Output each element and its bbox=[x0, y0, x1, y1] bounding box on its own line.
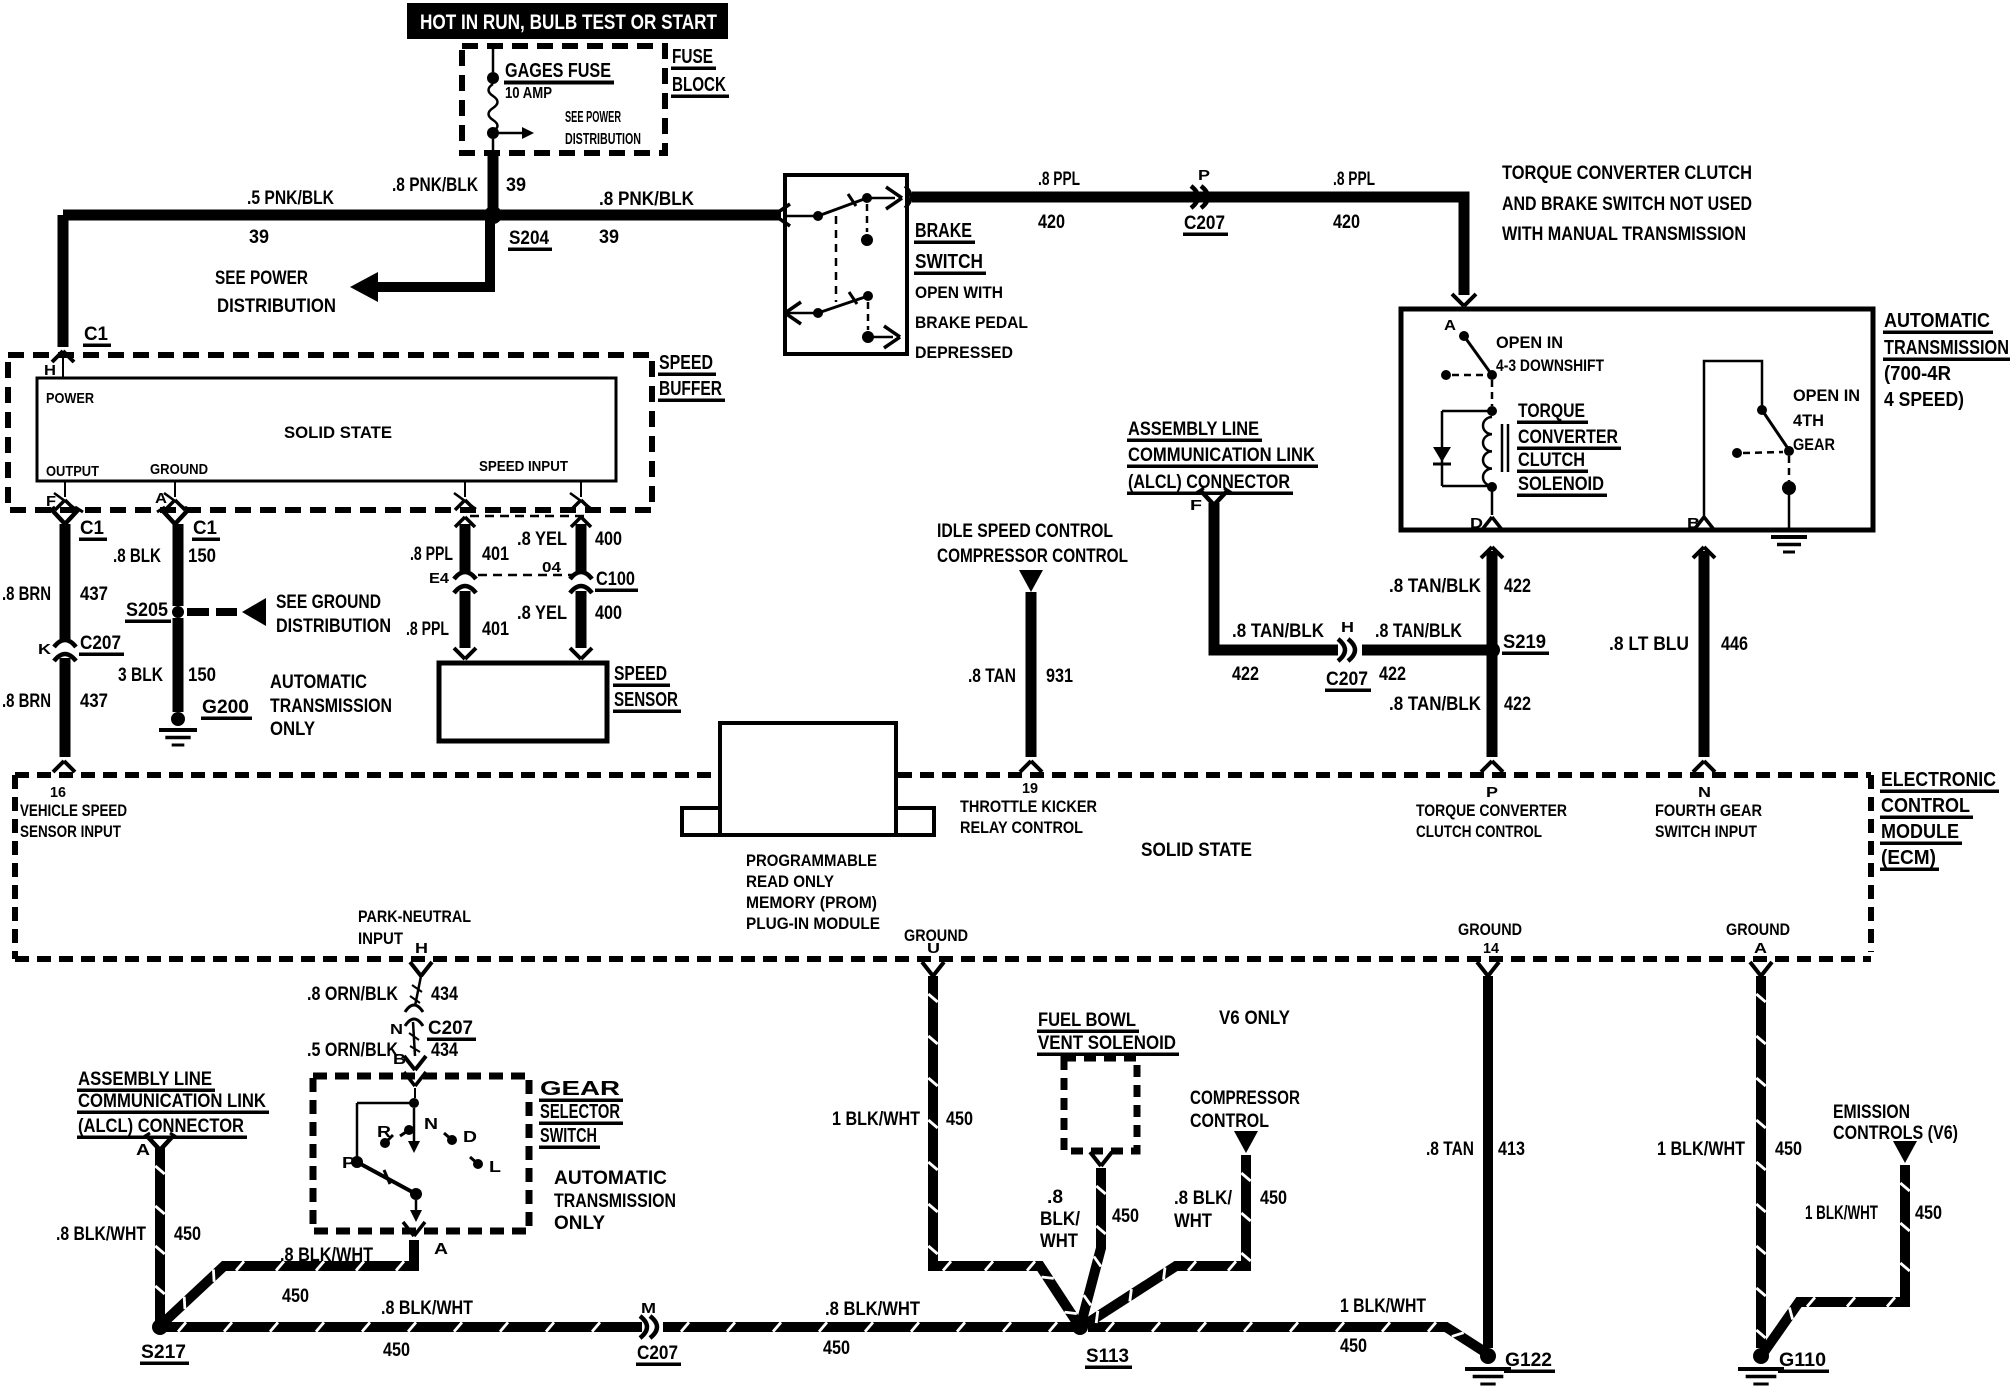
svg-text:.8 BLK/WHT: .8 BLK/WHT bbox=[825, 1299, 920, 1320]
svg-text:D: D bbox=[463, 1129, 477, 1146]
svg-text:OPEN IN: OPEN IN bbox=[1793, 386, 1860, 405]
svg-text:S204: S204 bbox=[509, 228, 549, 249]
svg-text:.8 PPL: .8 PPL bbox=[410, 544, 453, 565]
svg-text:3 BLK: 3 BLK bbox=[118, 665, 163, 686]
svg-text:450: 450 bbox=[383, 1340, 410, 1361]
svg-text:COMMUNICATION LINK: COMMUNICATION LINK bbox=[1128, 445, 1315, 466]
wire .8 TAN/BLK 422 from pin D bbox=[1481, 547, 1492, 558]
svg-text:G122: G122 bbox=[1505, 1350, 1552, 1371]
speed buffer solid state box bbox=[37, 378, 616, 481]
svg-text:SPEED: SPEED bbox=[659, 352, 713, 374]
svg-text:SEE GROUND: SEE GROUND bbox=[276, 592, 381, 613]
svg-text:C1: C1 bbox=[193, 518, 217, 539]
ground G200 bbox=[171, 712, 185, 726]
svg-text:EMISSION: EMISSION bbox=[1833, 1102, 1910, 1123]
fuel bowl vent solenoid box bbox=[1064, 1058, 1137, 1151]
svg-text:401: 401 bbox=[482, 619, 509, 640]
svg-text:.8 TAN/BLK: .8 TAN/BLK bbox=[1375, 621, 1462, 642]
svg-text:S113: S113 bbox=[1086, 1346, 1129, 1367]
svg-text:DISTRIBUTION: DISTRIBUTION bbox=[276, 616, 391, 637]
buffer pin speed input 1 bbox=[455, 500, 465, 510]
svg-text:C100: C100 bbox=[596, 569, 635, 590]
svg-text:.8 PNK/BLK: .8 PNK/BLK bbox=[599, 189, 694, 210]
svg-text:413: 413 bbox=[1498, 1139, 1525, 1160]
wire .8 BRN 437 lower bbox=[60, 658, 71, 757]
ECM box bbox=[15, 772, 718, 778]
svg-text:.8 TAN: .8 TAN bbox=[1426, 1139, 1474, 1160]
arrow see power distribution (S204) bbox=[372, 220, 490, 287]
svg-text:ONLY: ONLY bbox=[270, 719, 315, 740]
svg-text:400: 400 bbox=[595, 603, 622, 624]
svg-text:TORQUE CONVERTER CLUTCH: TORQUE CONVERTER CLUTCH bbox=[1502, 163, 1752, 184]
fuel bowl solenoid pin bbox=[1090, 1152, 1101, 1166]
brake switch mechanical link dashed bbox=[835, 216, 838, 302]
svg-text:422: 422 bbox=[1232, 664, 1259, 685]
svg-text:N: N bbox=[424, 1116, 438, 1133]
connector C207 pin K bbox=[54, 640, 76, 647]
svg-text:C207: C207 bbox=[637, 1343, 678, 1364]
svg-text:S217: S217 bbox=[141, 1342, 186, 1363]
wire .8 PPL 420 brake to C207 bbox=[905, 186, 911, 208]
svg-text:M: M bbox=[641, 1300, 656, 1317]
brake switch plunger dashed bbox=[866, 204, 869, 232]
svg-text:450: 450 bbox=[174, 1224, 201, 1245]
svg-text:450: 450 bbox=[823, 1338, 850, 1359]
svg-text:4 SPEED): 4 SPEED) bbox=[1884, 389, 1964, 411]
svg-text:19: 19 bbox=[1022, 780, 1038, 797]
svg-text:BRAKE PEDAL: BRAKE PEDAL bbox=[915, 313, 1028, 332]
wire 1 BLK/WHT 450 ground A bbox=[1756, 976, 1766, 1348]
buffer pin F bbox=[55, 500, 65, 510]
svg-text:AUTOMATIC: AUTOMATIC bbox=[270, 672, 367, 693]
svg-text:434: 434 bbox=[431, 1040, 458, 1061]
wire 1 BLK/WHT 450 S113 to G122 bbox=[1088, 1327, 1488, 1354]
svg-text:(700-4R: (700-4R bbox=[1884, 363, 1952, 385]
connector C207 pin P bbox=[1201, 186, 1208, 208]
svg-text:SOLID STATE: SOLID STATE bbox=[1141, 840, 1252, 861]
ECM pin U chevron bbox=[922, 962, 933, 976]
svg-text:DISTRIBUTION: DISTRIBUTION bbox=[217, 296, 336, 317]
svg-text:SENSOR: SENSOR bbox=[614, 689, 678, 711]
svg-text:C207: C207 bbox=[1184, 213, 1225, 234]
fuse F gages 10A bbox=[492, 46, 495, 72]
svg-text:450: 450 bbox=[1340, 1336, 1367, 1357]
svg-text:VEHICLE SPEED: VEHICLE SPEED bbox=[20, 801, 127, 820]
svg-text:OPEN IN: OPEN IN bbox=[1496, 333, 1563, 352]
gear selector contacts bbox=[380, 1138, 390, 1148]
svg-text:(ALCL) CONNECTOR: (ALCL) CONNECTOR bbox=[78, 1116, 244, 1137]
svg-text:(ALCL) CONNECTOR: (ALCL) CONNECTOR bbox=[1128, 472, 1290, 493]
svg-text:401: 401 bbox=[482, 544, 509, 565]
svg-text:C207: C207 bbox=[80, 633, 121, 654]
transmission pin A bbox=[1452, 294, 1464, 306]
svg-text:.8 BLK/WHT: .8 BLK/WHT bbox=[280, 1245, 373, 1266]
splice S204 bbox=[484, 206, 502, 224]
svg-text:437: 437 bbox=[80, 584, 108, 605]
buffer pin stubs bbox=[64, 481, 66, 497]
ECM pin 16 chevron bbox=[53, 761, 64, 772]
ECM pin H chevron bbox=[410, 962, 421, 976]
svg-text:39: 39 bbox=[249, 227, 269, 248]
wire .8 BLK/WHT 450 C207 to S113 bbox=[663, 1322, 1074, 1332]
PROM module bbox=[682, 808, 720, 835]
svg-text:PROGRAMMABLE: PROGRAMMABLE bbox=[746, 851, 877, 870]
svg-text:CONTROL: CONTROL bbox=[1881, 795, 1970, 817]
TCC solenoid coil bbox=[1442, 410, 1492, 413]
svg-text:DEPRESSED: DEPRESSED bbox=[915, 343, 1013, 362]
svg-text:SELECTOR: SELECTOR bbox=[540, 1101, 620, 1123]
svg-text:ONLY: ONLY bbox=[554, 1213, 605, 1234]
arrow see ground distribution bbox=[187, 608, 209, 616]
wire .8 TAN/BLK 422 to S219 bbox=[1362, 645, 1488, 656]
svg-text:COMMUNICATION LINK: COMMUNICATION LINK bbox=[78, 1091, 266, 1112]
svg-text:C207: C207 bbox=[428, 1018, 473, 1039]
svg-text:WHT: WHT bbox=[1174, 1211, 1212, 1232]
svg-text:.8 PPL: .8 PPL bbox=[1038, 169, 1080, 190]
4th gear switch bbox=[1704, 361, 1762, 517]
wire .8 PPL 401 upper bbox=[455, 517, 465, 527]
wire .8 TAN/BLK 422 from ALCL bbox=[1214, 503, 1338, 650]
svg-text:F: F bbox=[1190, 497, 1202, 514]
svg-text:P: P bbox=[1198, 167, 1210, 184]
svg-text:READ ONLY: READ ONLY bbox=[746, 872, 835, 891]
svg-text:AUTOMATIC: AUTOMATIC bbox=[554, 1168, 667, 1189]
svg-text:.8 TAN: .8 TAN bbox=[968, 666, 1016, 687]
svg-text:S205: S205 bbox=[126, 600, 168, 621]
svg-text:SOLENOID: SOLENOID bbox=[1518, 474, 1604, 495]
svg-text:AND BRAKE SWITCH NOT USED: AND BRAKE SWITCH NOT USED bbox=[1502, 194, 1752, 215]
splice S217 bbox=[152, 1319, 168, 1335]
svg-text:A: A bbox=[155, 490, 167, 507]
ECM pin 14 chevron bbox=[1477, 962, 1488, 976]
svg-text:450: 450 bbox=[1915, 1203, 1942, 1224]
svg-text:IDLE SPEED CONTROL: IDLE SPEED CONTROL bbox=[937, 521, 1113, 542]
svg-text:400: 400 bbox=[595, 529, 622, 550]
svg-text:ASSEMBLY LINE: ASSEMBLY LINE bbox=[1128, 419, 1259, 440]
svg-text:420: 420 bbox=[1038, 212, 1065, 233]
svg-text:CONVERTER: CONVERTER bbox=[1518, 427, 1618, 448]
svg-text:GEAR: GEAR bbox=[1793, 435, 1835, 454]
svg-text:A: A bbox=[136, 1142, 151, 1159]
wire 1 BLK/WHT 450 ground U bbox=[933, 976, 1078, 1324]
connector C207 pin H bbox=[1348, 639, 1355, 661]
svg-text:ELECTRONIC: ELECTRONIC bbox=[1881, 769, 1996, 791]
svg-text:SEE POWER: SEE POWER bbox=[565, 109, 621, 126]
svg-text:P: P bbox=[1486, 784, 1498, 801]
svg-text:150: 150 bbox=[188, 665, 216, 686]
svg-text:N: N bbox=[1698, 784, 1711, 801]
svg-text:.8 YEL: .8 YEL bbox=[517, 529, 567, 550]
svg-text:GAGES FUSE: GAGES FUSE bbox=[505, 60, 611, 82]
power feed banner HOT IN RUN bbox=[407, 3, 728, 39]
wire .8 BLK/WHT 450 fuel bowl bbox=[1081, 1168, 1101, 1324]
svg-text:.8 BLK/: .8 BLK/ bbox=[1174, 1188, 1233, 1209]
svg-text:C1: C1 bbox=[84, 324, 108, 345]
svg-text:RELAY CONTROL: RELAY CONTROL bbox=[960, 818, 1083, 837]
svg-text:DISTRIBUTION: DISTRIBUTION bbox=[565, 131, 641, 148]
svg-text:CLUTCH: CLUTCH bbox=[1518, 450, 1585, 471]
arrow see power distribution (fuse block) bbox=[499, 132, 524, 135]
svg-text:CLUTCH CONTROL: CLUTCH CONTROL bbox=[1416, 822, 1542, 841]
svg-text:.5 ORN/BLK: .5 ORN/BLK bbox=[307, 1040, 398, 1061]
svg-text:SWITCH INPUT: SWITCH INPUT bbox=[1655, 822, 1758, 841]
wire PNK/BLK down to C1 bbox=[58, 215, 69, 347]
brake switch box bbox=[785, 175, 907, 354]
svg-text:HOT IN RUN, BULB TEST OR START: HOT IN RUN, BULB TEST OR START bbox=[420, 11, 717, 34]
wire .8 BLK/WHT 450 S217 to C207 bbox=[160, 1322, 642, 1332]
svg-text:SWITCH: SWITCH bbox=[540, 1125, 597, 1147]
svg-text:.8 BLK/WHT: .8 BLK/WHT bbox=[56, 1224, 146, 1245]
svg-text:.8 BRN: .8 BRN bbox=[2, 584, 51, 605]
svg-text:CONTROLS (V6): CONTROLS (V6) bbox=[1833, 1123, 1958, 1144]
svg-text:.8 YEL: .8 YEL bbox=[517, 603, 567, 624]
gear selector switch box bbox=[313, 1076, 529, 1231]
svg-text:.8 BRN: .8 BRN bbox=[2, 691, 51, 712]
svg-text:C207: C207 bbox=[1326, 669, 1368, 690]
wire .8 TAN 413 bbox=[1483, 976, 1493, 1348]
connector E4 bbox=[454, 572, 476, 579]
svg-text:C1: C1 bbox=[80, 518, 104, 539]
svg-text:.8: .8 bbox=[1047, 1187, 1063, 1208]
wire .8 PNK/BLK 39 from fuse bbox=[488, 154, 499, 209]
svg-text:450: 450 bbox=[946, 1109, 973, 1130]
svg-text:.8 PPL: .8 PPL bbox=[406, 619, 449, 640]
buffer pin speed input 2 bbox=[571, 500, 581, 510]
svg-text:4TH: 4TH bbox=[1793, 411, 1824, 430]
svg-text:450: 450 bbox=[1112, 1206, 1139, 1227]
svg-text:.8 BLK: .8 BLK bbox=[113, 546, 161, 567]
svg-text:BLK/: BLK/ bbox=[1040, 1209, 1081, 1230]
buffer pin A bbox=[165, 500, 175, 510]
brake switch lower contact bbox=[785, 302, 801, 313]
svg-text:V6 ONLY: V6 ONLY bbox=[1219, 1008, 1290, 1029]
connector C207 pin N bbox=[405, 1005, 423, 1012]
svg-text:422: 422 bbox=[1504, 576, 1531, 597]
svg-text:GEAR: GEAR bbox=[540, 1078, 621, 1100]
wire 3 BLK 150 bbox=[173, 618, 184, 712]
connector C207 pin M bbox=[650, 1316, 657, 1338]
svg-text:PARK-NEUTRAL: PARK-NEUTRAL bbox=[358, 907, 471, 926]
svg-text:422: 422 bbox=[1504, 694, 1531, 715]
automatic transmission box bbox=[1401, 309, 1873, 530]
wire 1 BLK/WHT 450 emission bbox=[1893, 1141, 1917, 1163]
svg-text:450: 450 bbox=[1775, 1139, 1802, 1160]
wire .8 TAN 931 bbox=[1019, 570, 1043, 592]
splice S113 bbox=[1072, 1319, 1088, 1335]
svg-text:OUTPUT: OUTPUT bbox=[46, 463, 99, 480]
svg-text:1 BLK/WHT: 1 BLK/WHT bbox=[832, 1109, 920, 1130]
wire .8 BLK/WHT 450 from ALCL bbox=[155, 1148, 165, 1322]
svg-text:AUTOMATIC: AUTOMATIC bbox=[1884, 310, 1990, 332]
svg-text:POWER: POWER bbox=[46, 390, 94, 407]
svg-text:446: 446 bbox=[1721, 634, 1748, 655]
svg-text:BLOCK: BLOCK bbox=[672, 74, 726, 96]
svg-text:COMPRESSOR CONTROL: COMPRESSOR CONTROL bbox=[937, 546, 1128, 567]
svg-text:INPUT: INPUT bbox=[358, 929, 404, 948]
svg-text:N: N bbox=[390, 1021, 403, 1038]
svg-text:.8 BLK/WHT: .8 BLK/WHT bbox=[381, 1298, 473, 1319]
svg-text:TRANSMISSION: TRANSMISSION bbox=[270, 696, 392, 717]
svg-text:G200: G200 bbox=[202, 697, 249, 718]
svg-text:SENSOR INPUT: SENSOR INPUT bbox=[20, 822, 121, 841]
connector C1 pin F bbox=[52, 510, 65, 524]
svg-text:SEE POWER: SEE POWER bbox=[215, 268, 308, 289]
svg-text:WHT: WHT bbox=[1040, 1231, 1078, 1252]
wire .8 YEL 400 lower bbox=[576, 591, 587, 648]
svg-text:GROUND: GROUND bbox=[150, 461, 208, 478]
fuse block box bbox=[462, 46, 665, 153]
speed buffer box bbox=[8, 355, 652, 510]
svg-text:BUFFER: BUFFER bbox=[659, 378, 722, 400]
svg-text:K: K bbox=[38, 641, 51, 658]
svg-text:39: 39 bbox=[506, 175, 526, 196]
gear selector wiper P bbox=[351, 1156, 363, 1168]
wire .8 BRN 437 upper bbox=[60, 524, 71, 641]
svg-text:450: 450 bbox=[1260, 1188, 1287, 1209]
svg-text:SPEED: SPEED bbox=[614, 663, 667, 685]
svg-text:H: H bbox=[44, 362, 56, 379]
svg-text:THROTTLE KICKER: THROTTLE KICKER bbox=[960, 797, 1097, 816]
svg-text:.8 ORN/BLK: .8 ORN/BLK bbox=[307, 984, 398, 1005]
svg-text:150: 150 bbox=[188, 546, 216, 567]
svg-text:CONTROL: CONTROL bbox=[1190, 1111, 1269, 1132]
wire .8 BLK 150 bbox=[173, 524, 184, 606]
svg-text:04: 04 bbox=[542, 559, 562, 576]
speed sensor pins bbox=[454, 648, 465, 659]
wire bus PNK/BLK horizontal bbox=[63, 210, 781, 221]
wire .8 BLK/WHT 450 from gear selector bbox=[162, 1240, 414, 1324]
svg-text:GROUND: GROUND bbox=[1726, 920, 1790, 939]
svg-text:VENT SOLENOID: VENT SOLENOID bbox=[1038, 1033, 1176, 1054]
svg-text:420: 420 bbox=[1333, 212, 1360, 233]
svg-text:.5 PNK/BLK: .5 PNK/BLK bbox=[247, 188, 334, 209]
svg-text:OPEN WITH: OPEN WITH bbox=[915, 283, 1003, 302]
svg-text:422: 422 bbox=[1379, 664, 1406, 685]
ground G122 bbox=[1480, 1348, 1496, 1364]
svg-text:A: A bbox=[1444, 317, 1456, 334]
svg-text:931: 931 bbox=[1046, 666, 1073, 687]
svg-text:A: A bbox=[434, 1241, 449, 1258]
connector C100 D4 bbox=[570, 572, 592, 579]
gear selector internals bbox=[414, 1088, 416, 1098]
svg-text:PLUG-IN MODULE: PLUG-IN MODULE bbox=[746, 914, 880, 933]
wire .5 ORN/BLK 434 bbox=[413, 1022, 415, 1056]
transmission internal ground bbox=[1771, 535, 1807, 539]
wire .8 ORN/BLK 434 bbox=[415, 976, 421, 1006]
svg-text:TRANSMISSION: TRANSMISSION bbox=[1884, 337, 2009, 359]
speed sensor box bbox=[439, 663, 607, 741]
wire .8 BLK/WHT 450 compressor bbox=[1234, 1131, 1258, 1153]
svg-text:14: 14 bbox=[1483, 940, 1500, 957]
svg-text:1 BLK/WHT: 1 BLK/WHT bbox=[1805, 1203, 1878, 1224]
svg-text:H: H bbox=[1341, 619, 1354, 636]
svg-text:SWITCH: SWITCH bbox=[915, 251, 983, 273]
ground G110 bbox=[1753, 1348, 1769, 1364]
svg-text:SOLID STATE: SOLID STATE bbox=[284, 423, 392, 442]
svg-text:10 AMP: 10 AMP bbox=[505, 85, 552, 102]
svg-text:4-3 DOWNSHIFT: 4-3 DOWNSHIFT bbox=[1496, 356, 1604, 375]
svg-text:FUSE: FUSE bbox=[672, 46, 713, 68]
wire .8 PPL 401 lower bbox=[460, 591, 471, 648]
svg-text:A: A bbox=[1754, 940, 1767, 957]
svg-text:U: U bbox=[927, 940, 940, 957]
svg-text:FUEL BOWL: FUEL BOWL bbox=[1038, 1010, 1136, 1031]
svg-text:.8 PPL: .8 PPL bbox=[1333, 169, 1375, 190]
ECM pin A chevron bbox=[1750, 962, 1761, 976]
svg-text:BRAKE: BRAKE bbox=[915, 220, 972, 242]
svg-text:TRANSMISSION: TRANSMISSION bbox=[554, 1191, 676, 1212]
svg-text:(ECM): (ECM) bbox=[1881, 847, 1936, 869]
svg-text:G110: G110 bbox=[1779, 1350, 1826, 1371]
splice S219 bbox=[1484, 642, 1500, 658]
svg-text:H: H bbox=[415, 940, 428, 957]
svg-text:1 BLK/WHT: 1 BLK/WHT bbox=[1340, 1296, 1426, 1317]
svg-text:.8 LT BLU: .8 LT BLU bbox=[1609, 634, 1689, 655]
svg-text:.8 TAN/BLK: .8 TAN/BLK bbox=[1389, 576, 1481, 597]
svg-text:TORQUE: TORQUE bbox=[1518, 401, 1585, 422]
svg-text:MODULE: MODULE bbox=[1881, 821, 1959, 843]
gear selector pin A out bbox=[403, 1222, 414, 1236]
wire .8 YEL 400 upper bbox=[571, 517, 581, 527]
svg-text:COMPRESSOR: COMPRESSOR bbox=[1190, 1088, 1300, 1109]
svg-text:TORQUE CONVERTER: TORQUE CONVERTER bbox=[1416, 801, 1567, 820]
splice S205 bbox=[172, 606, 184, 618]
svg-text:437: 437 bbox=[80, 691, 108, 712]
svg-text:GROUND: GROUND bbox=[1458, 920, 1522, 939]
svg-text:.8 TAN/BLK: .8 TAN/BLK bbox=[1389, 694, 1481, 715]
svg-text:MEMORY (PROM): MEMORY (PROM) bbox=[746, 893, 877, 912]
connector C1 pin A bbox=[162, 510, 175, 524]
svg-text:39: 39 bbox=[599, 227, 619, 248]
svg-text:S219: S219 bbox=[1503, 632, 1546, 653]
svg-text:SPEED INPUT: SPEED INPUT bbox=[479, 458, 568, 475]
wire .8 LT BLU 446 from pin B bbox=[1693, 547, 1704, 558]
svg-text:434: 434 bbox=[431, 984, 458, 1005]
svg-text:.8 TAN/BLK: .8 TAN/BLK bbox=[1232, 621, 1324, 642]
svg-text:1 BLK/WHT: 1 BLK/WHT bbox=[1657, 1139, 1745, 1160]
svg-text:E4: E4 bbox=[429, 570, 450, 587]
svg-text:.8 PNK/BLK: .8 PNK/BLK bbox=[392, 175, 478, 196]
svg-text:450: 450 bbox=[282, 1286, 309, 1307]
svg-text:16: 16 bbox=[50, 784, 66, 801]
svg-text:ASSEMBLY LINE: ASSEMBLY LINE bbox=[78, 1069, 212, 1090]
brake switch upper contact bbox=[774, 204, 790, 215]
connector C100 dashed outline bbox=[470, 515, 585, 518]
svg-text:FOURTH GEAR: FOURTH GEAR bbox=[1655, 801, 1762, 820]
svg-text:WITH MANUAL TRANSMISSION: WITH MANUAL TRANSMISSION bbox=[1502, 224, 1746, 245]
svg-text:L: L bbox=[489, 1159, 501, 1176]
